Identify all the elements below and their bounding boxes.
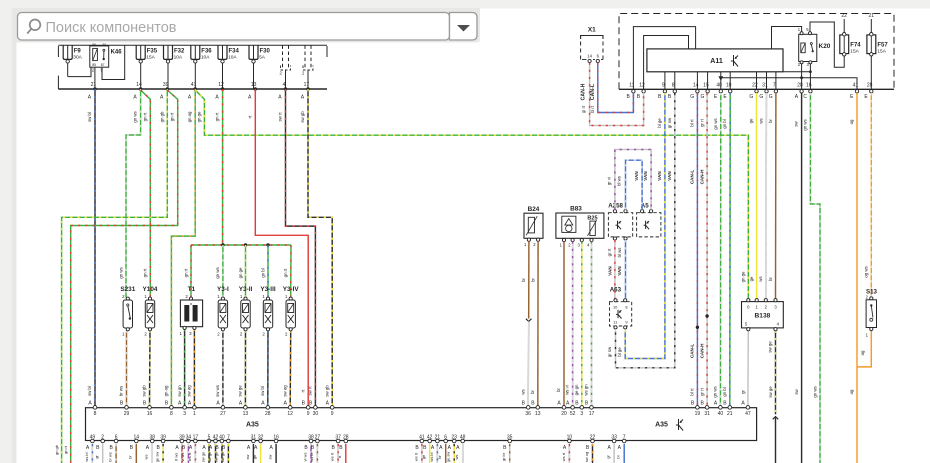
svg-text:sw rt: sw rt bbox=[278, 112, 283, 122]
svg-text:ws bl: ws bl bbox=[84, 452, 89, 461]
svg-text:21: 21 bbox=[727, 411, 733, 417]
A35 bottom terminal 38 bbox=[304, 434, 314, 451]
wire sw gn from T1 pin1 to A35 pin 3 bbox=[184, 329, 186, 406]
A11 internal pin lead x=766.5 bbox=[766, 72, 768, 90]
module A63 bbox=[610, 287, 632, 327]
fusebox right edge dash bbox=[326, 46, 328, 57]
A35 top terminal 17 bbox=[585, 400, 595, 417]
wire K46 pin85 to bus terminal 21 bbox=[94, 67, 96, 89]
svg-text:VAN: VAN bbox=[643, 171, 648, 181]
dashed connector stub at bus terminal 17 bbox=[302, 45, 313, 89]
svg-text:20: 20 bbox=[561, 411, 567, 417]
svg-text:4: 4 bbox=[283, 82, 286, 88]
wire gr from B138 pin 5 to A35 pin 47 bbox=[747, 331, 749, 406]
svg-text:B24: B24 bbox=[528, 206, 540, 213]
bus node terminal 13 bbox=[248, 82, 257, 100]
svg-text:7: 7 bbox=[773, 83, 776, 89]
wire gn rt from bus 39 to page bottom left bbox=[71, 90, 178, 463]
svg-text:gn gb: gn gb bbox=[54, 444, 59, 455]
svg-text:28: 28 bbox=[867, 83, 873, 89]
wire ws gn from B83 pin4 to A35 pin 17 bbox=[591, 242, 593, 406]
svg-text:sw ge: sw ge bbox=[238, 385, 243, 397]
fuse F9 30A bbox=[63, 45, 82, 63]
svg-text:sw: sw bbox=[794, 388, 799, 394]
module pin 8 bbox=[668, 83, 677, 100]
svg-text:14: 14 bbox=[587, 54, 592, 59]
A35 top terminal 19 bbox=[691, 400, 701, 417]
svg-text:br: br bbox=[521, 278, 526, 282]
svg-text:A11: A11 bbox=[710, 58, 723, 65]
wire vi ws from A35 pin 38 to page bottom bbox=[310, 444, 312, 463]
module bottom rail bbox=[619, 88, 894, 90]
svg-text:gr rt: gr rt bbox=[699, 387, 704, 395]
bus node terminal 21 bbox=[88, 82, 97, 100]
svg-text:sw rt: sw rt bbox=[308, 386, 313, 396]
wire og from A11 pin 41 to page bottom bbox=[856, 93, 858, 463]
wire gr sw VAN from A11 pin 8 to A63 pin 11 bbox=[616, 93, 675, 368]
svg-text:sw bl: sw bl bbox=[87, 386, 92, 396]
svg-text:sw ws: sw ws bbox=[215, 385, 220, 397]
svg-text:gr br: gr br bbox=[501, 452, 506, 461]
wire F9 to K46 coil bbox=[68, 67, 91, 76]
svg-text:10A: 10A bbox=[174, 55, 183, 61]
bus node terminal 14 bbox=[133, 82, 142, 100]
A35 bottom terminal 31 bbox=[247, 434, 257, 451]
svg-text:9: 9 bbox=[331, 411, 334, 417]
wire bl rt CAN-L from X1 pin 6 to A11 pin 11 bbox=[598, 63, 634, 113]
A35 bottom terminal 38 bbox=[146, 434, 156, 451]
svg-text:bl ws: bl ws bbox=[617, 176, 622, 186]
svg-text:bl rt: bl rt bbox=[689, 119, 694, 127]
svg-text:ge: ge bbox=[749, 276, 754, 281]
wire rt ws from A35 pin 39 to page bottom bbox=[181, 444, 183, 463]
A11 internal pin lead x=707.6 bbox=[707, 72, 709, 90]
fuse F35 15A bbox=[136, 45, 158, 63]
fusebox left edge dashes bbox=[57, 46, 59, 89]
wire bl ws loop A258 pin2 to A5 bbox=[626, 160, 643, 209]
svg-text:G: G bbox=[759, 94, 763, 100]
svg-text:15A: 15A bbox=[850, 49, 859, 55]
svg-text:bl ge: bl ge bbox=[657, 118, 662, 128]
svg-text:F57: F57 bbox=[877, 43, 888, 49]
wire K20 pin2 to module pin 28 bbox=[801, 64, 803, 90]
fuse F34 10A bbox=[218, 45, 240, 63]
svg-text:CAN-L: CAN-L bbox=[689, 344, 694, 358]
svg-text:gr rt: gr rt bbox=[699, 118, 704, 126]
A11 internal pin lead x=674.8 bbox=[674, 72, 676, 90]
module pin 31 bbox=[759, 83, 768, 100]
svg-text:gn og: gn og bbox=[164, 385, 169, 396]
module pin 10 bbox=[723, 83, 732, 100]
magnifier icon bbox=[27, 20, 40, 34]
svg-text:sw ge: sw ge bbox=[213, 451, 218, 462]
svg-text:T1: T1 bbox=[188, 286, 196, 293]
bus node terminal 4 bbox=[278, 82, 287, 100]
A35 top terminal 8 bbox=[165, 400, 173, 417]
svg-text:gn rt: gn rt bbox=[283, 268, 288, 277]
valve Y3-IV bbox=[283, 286, 300, 337]
A5 pins bbox=[641, 210, 653, 213]
search input box bbox=[18, 13, 450, 41]
A35 bottom terminal 32 bbox=[254, 434, 264, 451]
svg-text:G: G bbox=[769, 94, 773, 100]
wire og branch to S13 pin 1 bbox=[857, 331, 871, 367]
svg-text:bl: bl bbox=[616, 455, 621, 458]
transformer T1 bbox=[179, 286, 202, 336]
svg-text:br ws: br ws bbox=[119, 386, 124, 396]
A35 bottom terminal 37 bbox=[332, 434, 342, 451]
A35 bottom terminal 7 bbox=[222, 434, 230, 451]
fuse F32 10A bbox=[164, 45, 186, 63]
A35 top terminal 31 bbox=[701, 400, 711, 417]
svg-text:31: 31 bbox=[704, 411, 710, 417]
wire gr from A35 pin 33 to page bottom bbox=[613, 444, 615, 463]
wire sw gb from Y104 to A35 pin 16 bbox=[149, 331, 152, 406]
svg-text:og: og bbox=[849, 119, 854, 124]
A35 top terminal 21 bbox=[723, 400, 733, 417]
svg-text:Y3-II: Y3-II bbox=[239, 286, 253, 293]
wire vi ws from A35 pin 34 to page bottom bbox=[187, 444, 189, 463]
module pin 12 bbox=[637, 83, 646, 100]
svg-text:sw bl: sw bl bbox=[87, 112, 92, 122]
svg-text:B83: B83 bbox=[570, 206, 582, 213]
module pin 7 bbox=[769, 83, 778, 100]
wire gn rt junction bus to Y3-IV bbox=[290, 245, 292, 298]
wire K20 pin5 to F74 bbox=[810, 22, 844, 67]
A35 top terminal 52 bbox=[566, 400, 576, 417]
A35 bottom terminal 16 bbox=[270, 434, 280, 451]
svg-text:gr vi: gr vi bbox=[607, 177, 612, 185]
junction node at Y3-I feed bbox=[221, 243, 224, 246]
svg-text:X1: X1 bbox=[588, 27, 596, 34]
svg-text:ws rt: ws rt bbox=[561, 452, 566, 461]
A35 bottom terminal 22 bbox=[586, 434, 596, 451]
svg-text:G: G bbox=[690, 94, 694, 100]
svg-text:gr rt: gr rt bbox=[607, 248, 612, 256]
svg-text:10A: 10A bbox=[228, 55, 237, 61]
svg-text:sw gb: sw gb bbox=[300, 111, 305, 123]
svg-text:CAN-H: CAN-H bbox=[699, 169, 704, 184]
svg-text:10A: 10A bbox=[201, 55, 210, 61]
A11 internal pin lead x=730.2 bbox=[729, 72, 731, 90]
svg-text:11: 11 bbox=[629, 83, 634, 89]
A35 top terminal 30 bbox=[309, 400, 319, 417]
svg-text:8: 8 bbox=[94, 411, 97, 417]
A258 pins bbox=[613, 210, 627, 241]
A11 internal pin lead x=775.9 bbox=[775, 72, 777, 90]
svg-text:17: 17 bbox=[589, 411, 595, 417]
A5 control symbol bbox=[644, 221, 650, 230]
A35 bottom terminal 23 bbox=[448, 434, 458, 451]
svg-text:bl ws: bl ws bbox=[617, 248, 622, 258]
svg-text:gr: gr bbox=[740, 390, 745, 394]
svg-text:sw: sw bbox=[794, 120, 799, 126]
svg-text:13: 13 bbox=[251, 82, 257, 88]
wire bl ws from A258 to A63 pin 8 bbox=[625, 240, 627, 299]
A11 internal line to pin 12 bbox=[644, 36, 689, 90]
A35 bottom terminal 40 bbox=[215, 434, 225, 451]
svg-text:sw bl: sw bl bbox=[260, 386, 265, 396]
svg-text:41: 41 bbox=[191, 82, 197, 88]
A35 top terminal 36 bbox=[522, 400, 532, 417]
svg-text:ge gn: ge gn bbox=[574, 384, 579, 395]
wire sw ge from A35 pin 42 to page bottom bbox=[215, 444, 217, 463]
module pin 40 bbox=[714, 83, 723, 100]
wire K46 pin87 supply loop bbox=[102, 45, 125, 79]
wire sw ge from A35 pin 7 to page bottom bbox=[227, 444, 229, 463]
wire K20 pin3 to module pin 16 bbox=[783, 64, 810, 90]
svg-text:30: 30 bbox=[102, 43, 106, 47]
svg-text:ge: ge bbox=[252, 454, 257, 459]
A35 bottom terminal 39 bbox=[175, 434, 185, 451]
wire ws from A11 pin 31 to B138 pin 2 bbox=[765, 93, 768, 299]
svg-text:21: 21 bbox=[869, 13, 875, 19]
svg-text:5A: 5A bbox=[259, 55, 266, 61]
svg-text:gn rt: gn rt bbox=[215, 112, 220, 121]
svg-text:gn ws: gn ws bbox=[133, 111, 138, 122]
svg-text:12: 12 bbox=[287, 411, 293, 417]
valve distribution bus gn rt bbox=[191, 244, 291, 246]
A35 top terminal 1 bbox=[188, 400, 196, 417]
bus node terminal 17 bbox=[301, 82, 310, 100]
svg-text:ws rt: ws rt bbox=[187, 452, 192, 461]
svg-text:19: 19 bbox=[695, 411, 701, 417]
relay K20 bbox=[798, 27, 831, 67]
svg-text:K46: K46 bbox=[111, 50, 123, 56]
wire gn rt from bus 12 to valve junction bus bbox=[222, 89, 224, 245]
svg-text:Поиск компонентов: Поиск компонентов bbox=[46, 20, 177, 36]
svg-text:27: 27 bbox=[220, 411, 226, 417]
svg-text:VAN: VAN bbox=[617, 266, 622, 276]
wire br from B24 pin1 with continuation arrow bbox=[528, 241, 530, 318]
svg-text:C: C bbox=[803, 94, 807, 100]
svg-text:9: 9 bbox=[625, 320, 627, 325]
wire gn rt junction bus to T1 bbox=[190, 245, 192, 298]
svg-text:og: og bbox=[860, 350, 865, 355]
svg-text:ws br: ws br bbox=[309, 452, 314, 462]
svg-text:87: 87 bbox=[101, 63, 105, 67]
svg-text:rt ws: rt ws bbox=[173, 453, 178, 461]
wire br from B83 pin1 to A35 pin 20 bbox=[563, 242, 565, 406]
svg-text:22: 22 bbox=[752, 83, 758, 89]
svg-text:13: 13 bbox=[243, 411, 249, 417]
svg-text:15A: 15A bbox=[146, 55, 155, 61]
control unit B138 bbox=[742, 299, 784, 331]
svg-text:Y3-I: Y3-I bbox=[217, 286, 229, 293]
fusebox top rail bbox=[58, 44, 327, 46]
A35 bottom terminal 14 bbox=[130, 434, 140, 451]
wire sw bl from Y3-III to A35 pin 28 bbox=[267, 331, 269, 406]
svg-text:30: 30 bbox=[313, 411, 319, 417]
A35 bottom terminal 48 bbox=[456, 434, 466, 451]
svg-text:gn ws: gn ws bbox=[118, 267, 123, 278]
wire ws rt from A35 pin 10 to page bottom bbox=[568, 444, 570, 463]
svg-text:1: 1 bbox=[193, 411, 196, 417]
svg-text:ws vi: ws vi bbox=[565, 385, 570, 395]
svg-text:br: br bbox=[556, 388, 561, 392]
svg-text:sw og: sw og bbox=[282, 385, 287, 397]
A35 bottom terminal 17 bbox=[189, 434, 199, 451]
A35 control symbol bbox=[676, 419, 683, 431]
svg-text:A258: A258 bbox=[608, 203, 623, 210]
sensor unit B83 with B25 bbox=[556, 206, 604, 248]
svg-text:K20: K20 bbox=[819, 43, 831, 50]
svg-text:og: og bbox=[849, 389, 854, 394]
svg-text:47: 47 bbox=[745, 411, 751, 417]
A63 control symbol bbox=[616, 310, 622, 319]
svg-text:gn rt: gn rt bbox=[183, 268, 188, 277]
left gutter strip bbox=[12, 43, 17, 463]
wire bl from A35 pin 7 to page bottom bbox=[623, 444, 625, 463]
svg-text:8: 8 bbox=[672, 83, 675, 89]
A35 top terminal 9 bbox=[302, 400, 310, 417]
fuse F34 leads bbox=[222, 63, 224, 89]
svg-text:og ws: og ws bbox=[863, 266, 868, 277]
A11 internal pin lead x=664.9 bbox=[664, 72, 666, 90]
ECU A11 bbox=[647, 49, 783, 72]
svg-text:29: 29 bbox=[124, 411, 130, 417]
wire sw gb from bus 17 to A35 pin 9 bbox=[308, 89, 332, 406]
svg-text:gn bl: gn bl bbox=[722, 387, 727, 396]
svg-text:F30: F30 bbox=[260, 49, 271, 55]
svg-text:85: 85 bbox=[92, 63, 96, 67]
A35 bottom terminal 42 bbox=[423, 434, 433, 451]
fuse F30 5A bbox=[249, 45, 271, 63]
A35 bottom terminal 33 bbox=[608, 434, 618, 451]
svg-text:ws rt: ws rt bbox=[413, 452, 418, 461]
wire rt from bus 13 to A35 pin 9 bbox=[255, 89, 308, 406]
wire gn ws from bus 14 to S231 bbox=[126, 89, 141, 298]
svg-text:gr sw: gr sw bbox=[667, 117, 672, 128]
bus node terminal 41 bbox=[188, 82, 197, 100]
A35 top terminal 8 bbox=[88, 400, 96, 417]
A35 bottom terminal 34 bbox=[182, 434, 192, 451]
wire ws from A35 pin 38 to page bottom bbox=[151, 444, 153, 463]
A35 bottom terminal 7 bbox=[618, 434, 626, 451]
wire br from A35 pin 6 to page bottom bbox=[445, 444, 447, 463]
wire gr from A35 pin 2 to page bottom bbox=[102, 444, 104, 463]
wire ge from A35 pin 42 to page bottom bbox=[429, 444, 431, 463]
wire sw ws from Y3-I to A35 pin 27 bbox=[222, 331, 224, 406]
A63 pins bbox=[614, 299, 627, 329]
svg-text:15A: 15A bbox=[877, 49, 886, 55]
svg-text:sw gb: sw gb bbox=[142, 385, 147, 397]
fuse F35 leads bbox=[140, 63, 142, 89]
module pin 22 bbox=[749, 83, 758, 100]
search dropdown button bbox=[450, 13, 478, 41]
svg-text:9: 9 bbox=[662, 83, 665, 89]
svg-text:8: 8 bbox=[625, 304, 627, 309]
svg-text:Y104: Y104 bbox=[143, 286, 158, 293]
svg-text:br ws: br ws bbox=[108, 452, 113, 462]
wire gr rt CAN-H from A11 pin 15 to A35 pin 31 bbox=[706, 93, 708, 406]
svg-text:VAN: VAN bbox=[634, 171, 639, 181]
valve Y3-I bbox=[217, 286, 229, 337]
wire ws rt from A35 pin 41 to page bottom bbox=[421, 444, 423, 463]
A11 internal line to pin 41 bbox=[721, 78, 857, 90]
svg-text:22: 22 bbox=[841, 13, 847, 19]
svg-text:gn bl: gn bl bbox=[722, 119, 727, 128]
svg-text:sw gn: sw gn bbox=[177, 385, 182, 397]
svg-text:36: 36 bbox=[525, 411, 531, 417]
svg-text:21: 21 bbox=[91, 82, 97, 88]
svg-text:40: 40 bbox=[716, 83, 722, 89]
svg-text:ge: ge bbox=[421, 454, 426, 459]
wire gn bl junction bus to Y3-III bbox=[267, 245, 269, 298]
svg-text:31: 31 bbox=[762, 83, 768, 89]
wire sw og from A35 pin 22 to page bottom bbox=[592, 444, 594, 463]
wire sw rt from bus 4 to A35 pin 30 bbox=[286, 89, 316, 406]
A258 control symbol bbox=[616, 221, 622, 230]
svg-text:CAN-H: CAN-H bbox=[699, 343, 704, 358]
junction node on CAN-H bbox=[705, 314, 708, 317]
svg-text:28: 28 bbox=[265, 411, 271, 417]
wire ws from A35 pin 48 to page bottom bbox=[462, 444, 464, 463]
wire ge from A35 pin 32 to page bottom bbox=[260, 444, 262, 463]
module A258 bbox=[608, 203, 633, 237]
svg-text:gn rt: gn rt bbox=[143, 268, 148, 277]
wire br from A35 pin 14 to page bottom bbox=[135, 444, 137, 463]
A35 bottom terminal 39 bbox=[157, 434, 167, 451]
svg-text:14: 14 bbox=[693, 83, 699, 89]
svg-text:gn ws: gn ws bbox=[712, 386, 717, 397]
wire ge sw from A35 pin 39 to page bottom bbox=[162, 444, 164, 463]
svg-text:sw ge: sw ge bbox=[768, 341, 773, 353]
svg-text:sw: sw bbox=[245, 454, 250, 459]
wire ws vi from B83 pin2 to A35 pin 52 bbox=[572, 242, 574, 406]
fuse F36 leads bbox=[194, 63, 196, 89]
module pin 41 bbox=[850, 83, 859, 100]
svg-text:ws: ws bbox=[454, 455, 459, 460]
svg-text:gn rt: gn rt bbox=[170, 112, 175, 121]
svg-text:28: 28 bbox=[797, 83, 803, 89]
wire gr rt from A258 to A63 pin 10 bbox=[614, 240, 616, 299]
svg-text:F36: F36 bbox=[201, 49, 212, 55]
wire gn ge long run from bus 41 to B138 pin 0 bbox=[195, 90, 748, 299]
A35 top terminal 3 bbox=[178, 400, 186, 417]
svg-text:gn bl: gn bl bbox=[260, 268, 265, 277]
wire ws bl from A35 pin 49 to page bottom bbox=[91, 444, 93, 463]
svg-text:16: 16 bbox=[806, 83, 812, 89]
wire ws rt from A35 pin 17 to page bottom bbox=[194, 444, 196, 463]
A35 top terminal 9 bbox=[326, 400, 334, 417]
bus node terminal 39 bbox=[160, 82, 169, 100]
svg-text:G: G bbox=[749, 94, 753, 100]
A35 top terminal 40 bbox=[714, 400, 724, 417]
sensor B24 with thermistor bbox=[524, 206, 543, 247]
A35 bottom terminal 21 bbox=[431, 434, 441, 451]
wire ws rt from A35 pin 37 to page bottom bbox=[337, 444, 339, 463]
A35 top terminal 13 bbox=[531, 400, 541, 417]
svg-text:11: 11 bbox=[613, 320, 617, 325]
A35 top terminal 13 bbox=[239, 400, 249, 417]
wire sw ge from Y3-II to A35 pin 13 bbox=[244, 331, 246, 406]
svg-text:ws bl: ws bl bbox=[429, 452, 434, 461]
valve Y104 bbox=[143, 286, 158, 337]
wire gr vi loop A258 pin1 to A5 bbox=[615, 150, 651, 210]
A35 bottom terminal 27 bbox=[311, 434, 321, 451]
svg-text:A35: A35 bbox=[246, 422, 259, 429]
svg-text:ws: ws bbox=[144, 455, 149, 460]
svg-text:gn ge: gn ge bbox=[740, 271, 745, 282]
svg-text:gn gb: gn gb bbox=[159, 111, 164, 122]
A35 top terminal 47 bbox=[741, 400, 751, 417]
svg-text:gn og: gn og bbox=[187, 111, 192, 122]
svg-text:F35: F35 bbox=[147, 49, 158, 55]
module pin 16 bbox=[803, 83, 812, 100]
svg-text:A35: A35 bbox=[655, 422, 668, 429]
svg-text:bl ge: bl ge bbox=[617, 347, 622, 357]
